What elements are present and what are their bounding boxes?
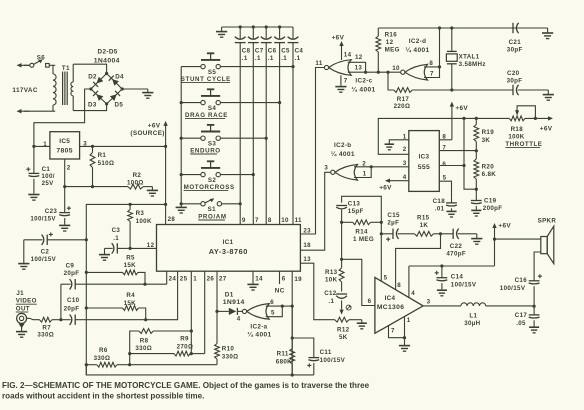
svg-text:MEG: MEG: [385, 47, 400, 54]
wire IC2-a inputs to pin 19 line: [282, 305, 292, 307]
wire pin 7 of IC1: [252, 43, 254, 225]
ground at C18: [446, 210, 456, 212]
svg-text:C11: C11: [320, 349, 332, 356]
wire video line to pin 25: [86, 271, 177, 320]
svg-text:12: 12: [355, 54, 363, 61]
svg-text:IC1: IC1: [223, 239, 234, 246]
svg-text:+6V: +6V: [379, 185, 392, 192]
svg-text:C19: C19: [484, 197, 497, 204]
svg-text:D3: D3: [88, 101, 97, 108]
svg-text:R11: R11: [277, 350, 289, 357]
svg-text:S6: S6: [37, 54, 45, 61]
diode bridge D2-D5: [91, 74, 107, 90]
wire pin 11 of IC1: [292, 43, 294, 225]
svg-text:¼ 4001: ¼ 4001: [247, 331, 271, 339]
svg-text:3K: 3K: [482, 137, 491, 144]
capacitor C7: [252, 27, 254, 38]
wire C22 node to pin 8 of IC4: [396, 234, 441, 290]
resistor R5: [86, 271, 122, 273]
svg-text:C2: C2: [41, 248, 50, 255]
svg-text:C12: C12: [324, 290, 337, 297]
+6V SOURCE arrow: [163, 121, 167, 126]
svg-text:5: 5: [384, 274, 388, 281]
svg-text:11: 11: [315, 60, 322, 67]
svg-text:7: 7: [344, 77, 348, 84]
ground at C1: [28, 194, 39, 196]
wire S2 to pin 7: [181, 174, 201, 176]
IC3 pin 1 ground: [389, 140, 409, 144]
svg-text:C7: C7: [255, 48, 264, 55]
svg-text:T1: T1: [62, 65, 70, 72]
svg-text:4: 4: [237, 315, 241, 322]
wire pin 8 of IC1: [265, 43, 267, 225]
potentiometer R12: [335, 317, 349, 322]
gate IC2-c: [329, 60, 352, 76]
svg-text:C6: C6: [268, 48, 277, 55]
resistor R4: [86, 307, 122, 309]
svg-text:R12: R12: [337, 326, 350, 333]
svg-text:+6V: +6V: [498, 223, 511, 230]
svg-text:8: 8: [397, 282, 401, 289]
svg-text:3: 3: [324, 165, 328, 172]
svg-text:7: 7: [430, 70, 434, 77]
svg-text:3.58MHz: 3.58MHz: [459, 61, 486, 68]
wire pin 27 of IC1: [216, 271, 218, 311]
wire pin 26 of IC1: [204, 271, 206, 353]
resistor R10: [216, 311, 218, 343]
wire pin2/R1/R2 node: [65, 186, 128, 188]
svg-text:100/15V: 100/15V: [500, 285, 526, 292]
wire cap rail: [222, 26, 293, 28]
capacitor C4: [292, 27, 294, 38]
svg-text:C16: C16: [515, 277, 528, 284]
wire +6V down to pin 28 node: [165, 146, 167, 204]
svg-text:3: 3: [83, 140, 87, 147]
ground at C20: [547, 90, 549, 95]
IC3 pin 3 wire: [371, 166, 409, 168]
resistor R1: [92, 146, 94, 152]
svg-text:510Ω: 510Ω: [98, 160, 115, 167]
svg-text:7: 7: [391, 328, 395, 335]
capacitor C17: [533, 306, 535, 315]
svg-text:200pF: 200pF: [483, 205, 503, 212]
switch S2: [207, 160, 214, 162]
svg-text:100/: 100/: [41, 173, 54, 180]
svg-text:R18: R18: [511, 126, 524, 133]
+6V arrow at IC2-c pin 14: [339, 41, 343, 46]
svg-text:DRAG RACE: DRAG RACE: [185, 112, 228, 119]
svg-text:.1: .1: [328, 298, 334, 305]
crystal XTAL1: [451, 28, 453, 51]
svg-text:C13: C13: [348, 200, 361, 207]
svg-text:6: 6: [282, 275, 286, 282]
svg-text:20pF: 20pF: [64, 305, 80, 312]
svg-text:6: 6: [368, 298, 372, 305]
wire pin 18 of IC1 to IC2-b output: [300, 172, 330, 250]
wire bridge left vertex to C1 node: [34, 89, 91, 146]
svg-text:¼ 4001: ¼ 4001: [351, 86, 375, 94]
svg-text:C22: C22: [450, 243, 463, 250]
wire pin 24 of IC1: [166, 271, 168, 284]
svg-text:5: 5: [271, 309, 275, 316]
IC4 pins 7 and 1 to ground: [389, 326, 405, 338]
svg-text:8: 8: [268, 217, 272, 224]
IC2-b input pins 2 and 1: [354, 167, 371, 178]
wire pin 24 line: [86, 283, 166, 285]
ground at C17: [529, 326, 539, 328]
svg-text:S3: S3: [208, 140, 216, 147]
IC4 pin 3 output wire: [423, 305, 461, 307]
wire pin 28 node to R3/C2 branch: [86, 204, 165, 239]
IC3 pin 5 wire to C18: [439, 181, 451, 198]
svg-text:10: 10: [281, 217, 289, 224]
svg-text:100/15V: 100/15V: [451, 282, 477, 289]
svg-text:11: 11: [295, 217, 302, 224]
svg-text:R2: R2: [133, 172, 142, 179]
capacitor C14: [441, 266, 443, 278]
svg-text:100/15V: 100/15V: [320, 357, 346, 364]
wire IC2-d inputs riser to rail: [439, 28, 441, 67]
wire S1 to pin 9: [181, 203, 201, 205]
wire speaker bottom terminal: [534, 252, 541, 277]
switch S4: [207, 88, 214, 90]
amplifier IC4 MC1306: [375, 277, 423, 333]
svg-text:C4: C4: [295, 48, 304, 55]
wiper arrow into R12: [341, 300, 343, 309]
svg-text:12: 12: [147, 242, 155, 249]
svg-text:.1: .1: [113, 235, 119, 242]
ground at cap rail: [221, 27, 223, 32]
wire oscillator top rail: [378, 27, 547, 29]
ground at R2: [151, 187, 153, 191]
wire pin 13 of IC1 to R12: [300, 263, 334, 320]
svg-text:C17: C17: [515, 312, 528, 319]
svg-text:XTAL1: XTAL1: [459, 53, 480, 60]
svg-text:IC4: IC4: [385, 295, 396, 302]
svg-text:10: 10: [392, 65, 400, 72]
wire S5 to pin 11: [181, 66, 201, 68]
svg-text:27: 27: [219, 275, 227, 282]
svg-text:R13: R13: [325, 269, 338, 276]
svg-text:STUNT CYCLE: STUNT CYCLE: [181, 76, 231, 83]
capacitor C6: [265, 27, 267, 38]
svg-text:2µF: 2µF: [387, 219, 399, 226]
wire speaker top terminal: [495, 238, 541, 240]
svg-text:+6V: +6V: [540, 125, 553, 132]
IC3 pin 4 +6V arrow: [385, 179, 390, 183]
svg-text:13: 13: [355, 64, 363, 71]
svg-text:NC: NC: [275, 287, 285, 294]
svg-text:1: 1: [193, 275, 197, 282]
IC2-c pin 7 ground: [340, 75, 342, 86]
resistor R13: [341, 259, 343, 268]
svg-text:.01: .01: [435, 206, 445, 213]
svg-text:1: 1: [363, 171, 367, 178]
svg-text:AY-3-8760: AY-3-8760: [209, 247, 248, 256]
svg-text:15K: 15K: [124, 262, 137, 269]
resistor R17: [388, 72, 394, 90]
svg-text:C14: C14: [451, 273, 464, 280]
svg-text:D2: D2: [88, 74, 97, 81]
resistor R8: [130, 331, 139, 354]
ground at C2: [18, 263, 29, 265]
wire switch common rail: [180, 67, 182, 204]
svg-text:100K: 100K: [136, 218, 152, 225]
svg-text:.1: .1: [281, 55, 287, 62]
svg-text:C10: C10: [67, 297, 80, 304]
capacitor C23: [64, 187, 66, 213]
svg-text:D4: D4: [115, 74, 124, 81]
svg-text:4: 4: [411, 290, 415, 297]
svg-text:26: 26: [207, 275, 215, 282]
wire pin 23 of IC1 to IC2-c output: [300, 68, 324, 235]
switch S6: [17, 63, 22, 67]
ground at C23: [59, 224, 70, 226]
svg-text:C15: C15: [387, 212, 400, 219]
svg-text:C5: C5: [281, 48, 290, 55]
IC4 pin 4 wire: [408, 266, 410, 298]
svg-text:1N914: 1N914: [223, 299, 245, 306]
svg-text:IC2-c: IC2-c: [355, 77, 372, 84]
diode D4: [112, 79, 119, 86]
svg-text:23: 23: [303, 227, 311, 234]
IC2-c pin 14 wire: [341, 46, 343, 60]
wire pin 1 of IC1: [190, 271, 192, 353]
svg-text:L1: L1: [469, 312, 477, 319]
resistor R9: [130, 353, 174, 355]
svg-text:470pF: 470pF: [446, 251, 466, 258]
resistor R20: [475, 151, 477, 159]
svg-text:R17: R17: [397, 96, 410, 103]
wire pin 14 of IC1 to ground: [252, 271, 254, 283]
svg-text:IC2-b: IC2-b: [334, 142, 352, 149]
svg-text:15pF: 15pF: [348, 208, 364, 215]
svg-text:330Ω: 330Ω: [135, 345, 152, 352]
wire C14 pin 4 line: [409, 265, 495, 267]
svg-text:R1: R1: [98, 152, 107, 159]
switch S3: [207, 124, 214, 126]
svg-text:+6V: +6V: [148, 122, 161, 129]
timer IC3 555: [409, 131, 440, 192]
wire pin 10 of IC1: [279, 43, 281, 225]
svg-text:28: 28: [168, 216, 176, 223]
svg-text:18: 18: [303, 242, 311, 249]
svg-text:FIG. 2—SCHEMATIC OF THE MOTORC: FIG. 2—SCHEMATIC OF THE MOTORCYCLE GAME.…: [2, 381, 370, 390]
IC3 pin 6 wire: [439, 165, 464, 167]
+6V arrow above IC3: [450, 102, 454, 107]
capacitor C5: [279, 27, 281, 38]
ground at bridge output: [122, 88, 148, 90]
svg-text:PRO/AM: PRO/AM: [198, 213, 226, 220]
svg-text:R5: R5: [126, 254, 135, 261]
svg-text:5K: 5K: [339, 334, 348, 341]
svg-text:MC1306: MC1306: [377, 304, 404, 311]
svg-text:30µH: 30µH: [464, 320, 480, 327]
svg-text:D2-D5: D2-D5: [98, 48, 118, 55]
ground at C19: [471, 209, 481, 211]
svg-text:2: 2: [67, 165, 71, 172]
svg-text:100/15V: 100/15V: [30, 215, 56, 222]
svg-text:555: 555: [418, 164, 430, 171]
IC2-a input pins 6 and 5: [266, 306, 283, 317]
svg-text:roads without accident in the: roads without accident in the shortest p…: [2, 391, 204, 400]
wire IC2-c output node: [366, 71, 401, 73]
IC2-d input pins 8 and 7: [424, 67, 440, 78]
svg-text:30pF: 30pF: [507, 46, 523, 53]
IC3 pin 7 wire: [439, 150, 476, 152]
IC4 pin 8 wire: [395, 289, 397, 291]
svg-text:R10: R10: [222, 346, 235, 353]
svg-text:30pF: 30pF: [507, 77, 523, 84]
capacitor C12: [336, 293, 347, 295]
svg-text:5: 5: [443, 175, 447, 182]
wire 117VAC bottom lead: [17, 109, 22, 113]
svg-text:24: 24: [169, 275, 177, 282]
svg-text:2: 2: [362, 160, 366, 167]
svg-text:THROTTLE: THROTTLE: [505, 141, 542, 148]
svg-text:R14: R14: [355, 229, 368, 236]
svg-text:R19: R19: [482, 129, 495, 136]
resistor R16: [377, 28, 379, 36]
pin 2 of IC5 wire: [64, 159, 66, 187]
svg-text:J1: J1: [16, 290, 24, 297]
svg-text:1: 1: [403, 133, 407, 140]
svg-text:9: 9: [242, 217, 246, 224]
svg-text:+6V: +6V: [332, 35, 345, 42]
+6V arrow right of R18: [548, 116, 553, 120]
svg-text:1K: 1K: [420, 222, 429, 229]
svg-text:+6V: +6V: [455, 105, 468, 112]
wire pin 9 of IC1: [239, 43, 241, 225]
svg-text:100K: 100K: [508, 134, 524, 141]
diode D3: [96, 94, 103, 101]
svg-text:IC2-a: IC2-a: [250, 323, 267, 330]
svg-text:C3: C3: [112, 227, 121, 234]
svg-text:C23: C23: [45, 208, 58, 215]
ground at C21: [547, 28, 549, 33]
svg-text:C18: C18: [433, 198, 446, 205]
capacitor C8: [239, 27, 241, 38]
capacitor C19: [475, 189, 477, 200]
svg-text:7: 7: [255, 217, 259, 224]
svg-text:IC3: IC3: [419, 154, 430, 161]
svg-text:10K: 10K: [325, 277, 338, 284]
svg-text:3: 3: [427, 299, 431, 306]
wire secondary top to bridge: [73, 64, 106, 73]
IC3 pin 8 wire: [439, 139, 452, 141]
wire R14 node down to pin 5 of IC4: [380, 222, 382, 281]
diode D2: [97, 77, 104, 84]
IC3 pin 2 wire to throttle line: [378, 118, 464, 154]
IC4 pin 5 wire: [380, 280, 382, 282]
svg-text:R8: R8: [140, 338, 149, 345]
wire pin 3 of IC5 to +6V source node: [80, 145, 166, 147]
svg-text:.1: .1: [242, 55, 248, 62]
ground at C22: [471, 238, 482, 240]
svg-text:R6: R6: [99, 347, 108, 354]
wire bottom rail: [86, 365, 313, 375]
svg-text:25V: 25V: [42, 180, 55, 187]
resistor R14: [353, 220, 371, 225]
potentiometer R18 throttle: [464, 117, 509, 119]
svg-text:C9: C9: [66, 262, 75, 269]
svg-text:100/15V: 100/15V: [31, 256, 57, 263]
svg-text:C8: C8: [242, 48, 251, 55]
svg-text:C21: C21: [509, 39, 522, 46]
svg-text:R4: R4: [126, 292, 135, 299]
wire pin 12 of IC1: [130, 247, 156, 249]
svg-text:1 MEG: 1 MEG: [353, 236, 374, 243]
svg-text:20pF: 20pF: [64, 270, 80, 277]
switch S1: [201, 202, 205, 206]
svg-text:12: 12: [386, 39, 394, 46]
svg-text:13: 13: [303, 256, 311, 263]
svg-text:SPKR: SPKR: [538, 217, 557, 224]
svg-text:330Ω: 330Ω: [222, 353, 239, 360]
svg-text:IC2-d: IC2-d: [409, 38, 427, 45]
svg-text:19: 19: [294, 276, 302, 283]
svg-text:6.8K: 6.8K: [482, 171, 497, 178]
wire R6 node risers: [129, 354, 131, 365]
svg-text:R3: R3: [136, 210, 145, 217]
svg-text:6: 6: [442, 161, 446, 168]
capacitor C16: [533, 277, 535, 280]
svg-text:.1: .1: [295, 55, 301, 62]
svg-text:ENDURO: ENDURO: [190, 147, 221, 154]
svg-text:R9: R9: [180, 335, 189, 342]
ground at C3: [104, 248, 106, 254]
wire S3 to pin 8: [181, 137, 201, 139]
capacitor C21: [452, 27, 513, 29]
svg-text:D1: D1: [225, 291, 234, 298]
voltage regulator IC5 7805: [50, 132, 80, 159]
resistor R7: [27, 317, 30, 319]
svg-text:VIDEO: VIDEO: [16, 298, 37, 305]
wire main left vertical rail: [85, 240, 87, 375]
svg-text:.05: .05: [516, 320, 526, 327]
svg-text:MOTORCROSS: MOTORCROSS: [184, 184, 235, 191]
svg-text:.1: .1: [268, 55, 274, 62]
ground at switch rail: [180, 204, 182, 208]
svg-text:330Ω: 330Ω: [94, 355, 111, 362]
svg-text:15K: 15K: [124, 300, 137, 307]
wire pin 1 of IC5: [34, 145, 50, 147]
svg-text:1: 1: [43, 141, 47, 148]
wire pin 28 of IC1: [165, 204, 167, 224]
resistor R6: [86, 364, 97, 366]
svg-text:7805: 7805: [56, 148, 73, 155]
svg-text:R7: R7: [42, 324, 51, 331]
svg-text:3: 3: [403, 160, 407, 167]
ground at C14: [437, 289, 447, 291]
IC U1 AY-3-8760: [157, 225, 301, 272]
diode D5: [110, 94, 117, 101]
gate IC2-a: [247, 304, 270, 320]
wire secondary bottom to bridge: [73, 104, 106, 111]
capacitor C1: [33, 146, 35, 173]
svg-text:R15: R15: [417, 215, 430, 222]
svg-text:117VAC: 117VAC: [12, 87, 37, 94]
svg-text:6: 6: [270, 299, 274, 306]
wire R18 line down to pin 6 and R20 bottom: [464, 118, 476, 189]
svg-text:270Ω: 270Ω: [177, 343, 194, 350]
svg-text:100Ω: 100Ω: [127, 179, 144, 186]
resistor R19: [475, 118, 477, 124]
svg-text:R20: R20: [482, 163, 495, 170]
svg-text:S1: S1: [208, 206, 216, 213]
pin 6 of IC1 NC stub: [279, 271, 281, 284]
svg-text:14: 14: [255, 275, 263, 282]
